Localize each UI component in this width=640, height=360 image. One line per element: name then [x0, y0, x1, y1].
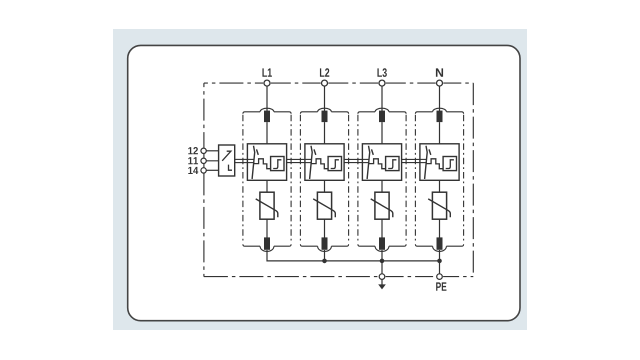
trigger bus stub inside module 3	[363, 158, 370, 160]
junction node earth tap on PE bus	[380, 259, 385, 264]
spark gap electrode F4	[425, 146, 428, 179]
trigger bus: module 1 to module 2	[286, 158, 305, 160]
wire L3 terminal to top disconnector	[381, 86, 383, 111]
spark gap electrode F2	[310, 146, 313, 179]
terminal PE	[437, 274, 443, 280]
remote signalling terminal 12	[201, 148, 206, 153]
wire module 2 to PE bus	[324, 250, 326, 261]
trigger step symbol module 3	[388, 160, 396, 169]
wire L1 terminal to top disconnector	[266, 86, 268, 111]
terminal L2	[322, 80, 328, 86]
bottom thermal disconnector module 1	[264, 237, 270, 249]
earth arrow head	[378, 284, 386, 289]
outer device boundary bottom edge	[204, 276, 379, 278]
spark gap counter electrode F2	[314, 149, 316, 155]
trigger circuit box module 4	[443, 157, 456, 171]
changeover contact 12 fixed contact and blade	[222, 151, 231, 161]
wire spark gap to varistor module 1	[266, 180, 268, 192]
trigger circuit box module 2	[328, 157, 341, 171]
top plug-in contact hop arc module 4	[433, 108, 447, 112]
wire spark gap to varistor module 2	[324, 180, 326, 192]
top plug-in contact hop arc module 1	[260, 108, 274, 112]
bottom thermal disconnector module 2	[322, 237, 328, 249]
wire disconnector to spark gap module 4	[439, 122, 441, 144]
spark gap unit F4 box	[420, 144, 459, 181]
blue panel background	[113, 29, 527, 330]
spark gap unit F3 box	[362, 144, 401, 181]
changeover contact box K1	[219, 145, 235, 176]
label L2	[320, 68, 325, 76]
wire terminal 14 to contact box	[206, 169, 221, 171]
wire earth tap down	[381, 261, 383, 274]
wire spark gap to varistor module 3	[381, 180, 383, 192]
varistor RV2 diagonal	[313, 199, 335, 217]
protection module boundary 1	[243, 112, 260, 114]
junction node module 2 on PE bus	[322, 259, 327, 264]
terminal L1	[264, 80, 270, 86]
label 12	[188, 147, 192, 154]
PE collecting bus	[267, 250, 440, 261]
wire terminal 12 to contact box	[206, 150, 221, 152]
outer device boundary right edge	[472, 83, 474, 277]
trigger step symbol module 2	[331, 160, 339, 169]
trigger step symbol module 4	[446, 160, 454, 169]
trigger bus stub inside module 1	[248, 158, 255, 160]
varistor RV3 diagonal	[371, 199, 393, 217]
top plug-in contact hop arc module 2	[318, 108, 332, 112]
terminal N	[437, 80, 443, 86]
trigger step symbol module 1	[273, 160, 281, 169]
wire disconnector to spark gap module 1	[266, 122, 268, 144]
trigger link square-wave module 4	[426, 159, 443, 169]
outer device boundary left edge	[203, 83, 205, 148]
white card with border	[128, 45, 520, 320]
top thermal disconnector module 2	[322, 111, 328, 123]
trigger link square-wave module 2	[311, 159, 328, 169]
wire N terminal to top disconnector	[439, 86, 441, 111]
label 14	[188, 167, 192, 174]
spark gap counter electrode F4	[429, 149, 431, 155]
top plug-in contact hop arc module 3	[375, 108, 389, 112]
varistor RV4 diagonal	[428, 199, 450, 217]
bottom plug-in contact hop arc module 3	[375, 246, 389, 251]
wire varistor to bottom disconnector module 3	[381, 219, 383, 237]
outer device boundary top edge	[204, 82, 263, 84]
trigger link square-wave module 3	[369, 159, 386, 169]
protection module boundary 4	[415, 112, 432, 114]
spark gap electrode F1	[252, 146, 255, 179]
spark gap unit F2 box	[305, 144, 344, 181]
spark gap unit F1 box	[247, 144, 286, 181]
wire terminal 11 to contact box	[206, 160, 222, 162]
bottom plug-in contact hop arc module 1	[260, 246, 274, 251]
wire varistor to bottom disconnector module 4	[439, 219, 441, 237]
junction node module 4 on PE bus	[437, 259, 442, 264]
label L3	[377, 68, 382, 76]
remote signalling terminal 14	[201, 168, 206, 173]
top thermal disconnector module 4	[437, 111, 443, 123]
wire disconnector to spark gap module 3	[381, 122, 383, 144]
bottom thermal disconnector module 4	[437, 237, 443, 249]
bottom plug-in contact hop arc module 4	[433, 246, 447, 251]
trigger bus: remote contact to module 1	[235, 158, 248, 160]
varistor RV2 body	[317, 192, 331, 219]
earth terminal circle	[379, 274, 385, 280]
varistor RV1 body	[260, 192, 274, 219]
earth arrow stem	[381, 279, 383, 285]
changeover contact 14 fixed contact hook	[229, 165, 233, 171]
wire spark gap to varistor module 4	[439, 180, 441, 192]
wire varistor to bottom disconnector module 2	[324, 219, 326, 237]
label L1	[262, 68, 267, 76]
top thermal disconnector module 1	[264, 111, 270, 123]
spark gap counter electrode F1	[257, 149, 259, 155]
terminal L3	[379, 80, 385, 86]
wire varistor to bottom disconnector module 1	[266, 219, 268, 237]
top thermal disconnector module 3	[379, 111, 385, 123]
protection module boundary 3	[358, 112, 375, 114]
remote signalling terminal 11	[201, 158, 206, 163]
varistor RV3 body	[375, 192, 389, 219]
spark gap counter electrode F3	[372, 149, 374, 155]
label PE	[436, 282, 441, 290]
bottom thermal disconnector module 3	[379, 237, 385, 249]
trigger bus: module 3 to module 4	[401, 158, 420, 160]
varistor RV4 body	[432, 192, 446, 219]
bottom plug-in contact hop arc module 2	[318, 246, 332, 251]
trigger bus: module 2 to module 3	[344, 158, 363, 160]
trigger bus stub inside module 4	[420, 158, 427, 160]
wire module 3 to PE bus	[381, 250, 383, 261]
varistor RV1 diagonal	[256, 199, 278, 217]
protection module boundary 2	[300, 112, 317, 114]
trigger link square-wave module 1	[254, 159, 271, 169]
label N	[436, 68, 443, 76]
wire disconnector to spark gap module 2	[324, 122, 326, 144]
label 11	[188, 157, 192, 164]
trigger circuit box module 3	[386, 157, 399, 171]
wire module 4 to PE bus and PE terminal	[439, 250, 441, 274]
wire L2 terminal to top disconnector	[324, 86, 326, 111]
trigger circuit box module 1	[271, 157, 284, 171]
spark gap electrode F3	[367, 146, 370, 179]
trigger bus stub inside module 2	[305, 158, 312, 160]
